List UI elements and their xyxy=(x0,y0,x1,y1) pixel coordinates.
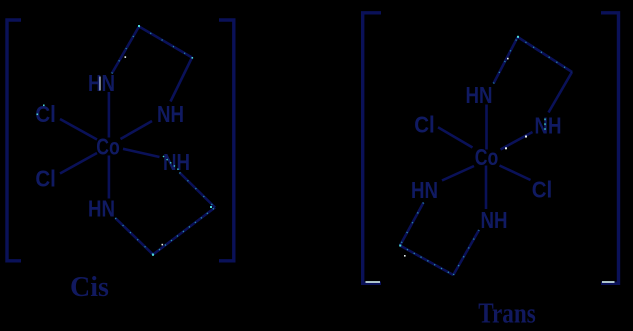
svg-text:HN: HN xyxy=(411,177,438,203)
svg-text:Cl: Cl xyxy=(35,166,56,192)
svg-text:HN: HN xyxy=(88,70,115,96)
svg-text:Cl: Cl xyxy=(532,177,553,203)
svg-text:Cl: Cl xyxy=(35,101,56,127)
svg-text:HN: HN xyxy=(466,82,493,108)
svg-text:Cl: Cl xyxy=(414,112,435,138)
svg-text:NH: NH xyxy=(481,207,508,233)
svg-text:NH: NH xyxy=(163,149,190,175)
svg-text:NH: NH xyxy=(535,113,562,139)
svg-text:Co: Co xyxy=(96,134,120,160)
svg-text:NH: NH xyxy=(157,101,184,127)
svg-text:HN: HN xyxy=(88,196,115,222)
svg-text:Cis: Cis xyxy=(70,272,109,303)
svg-text:Co: Co xyxy=(475,144,499,170)
svg-text:Trans: Trans xyxy=(478,299,536,330)
